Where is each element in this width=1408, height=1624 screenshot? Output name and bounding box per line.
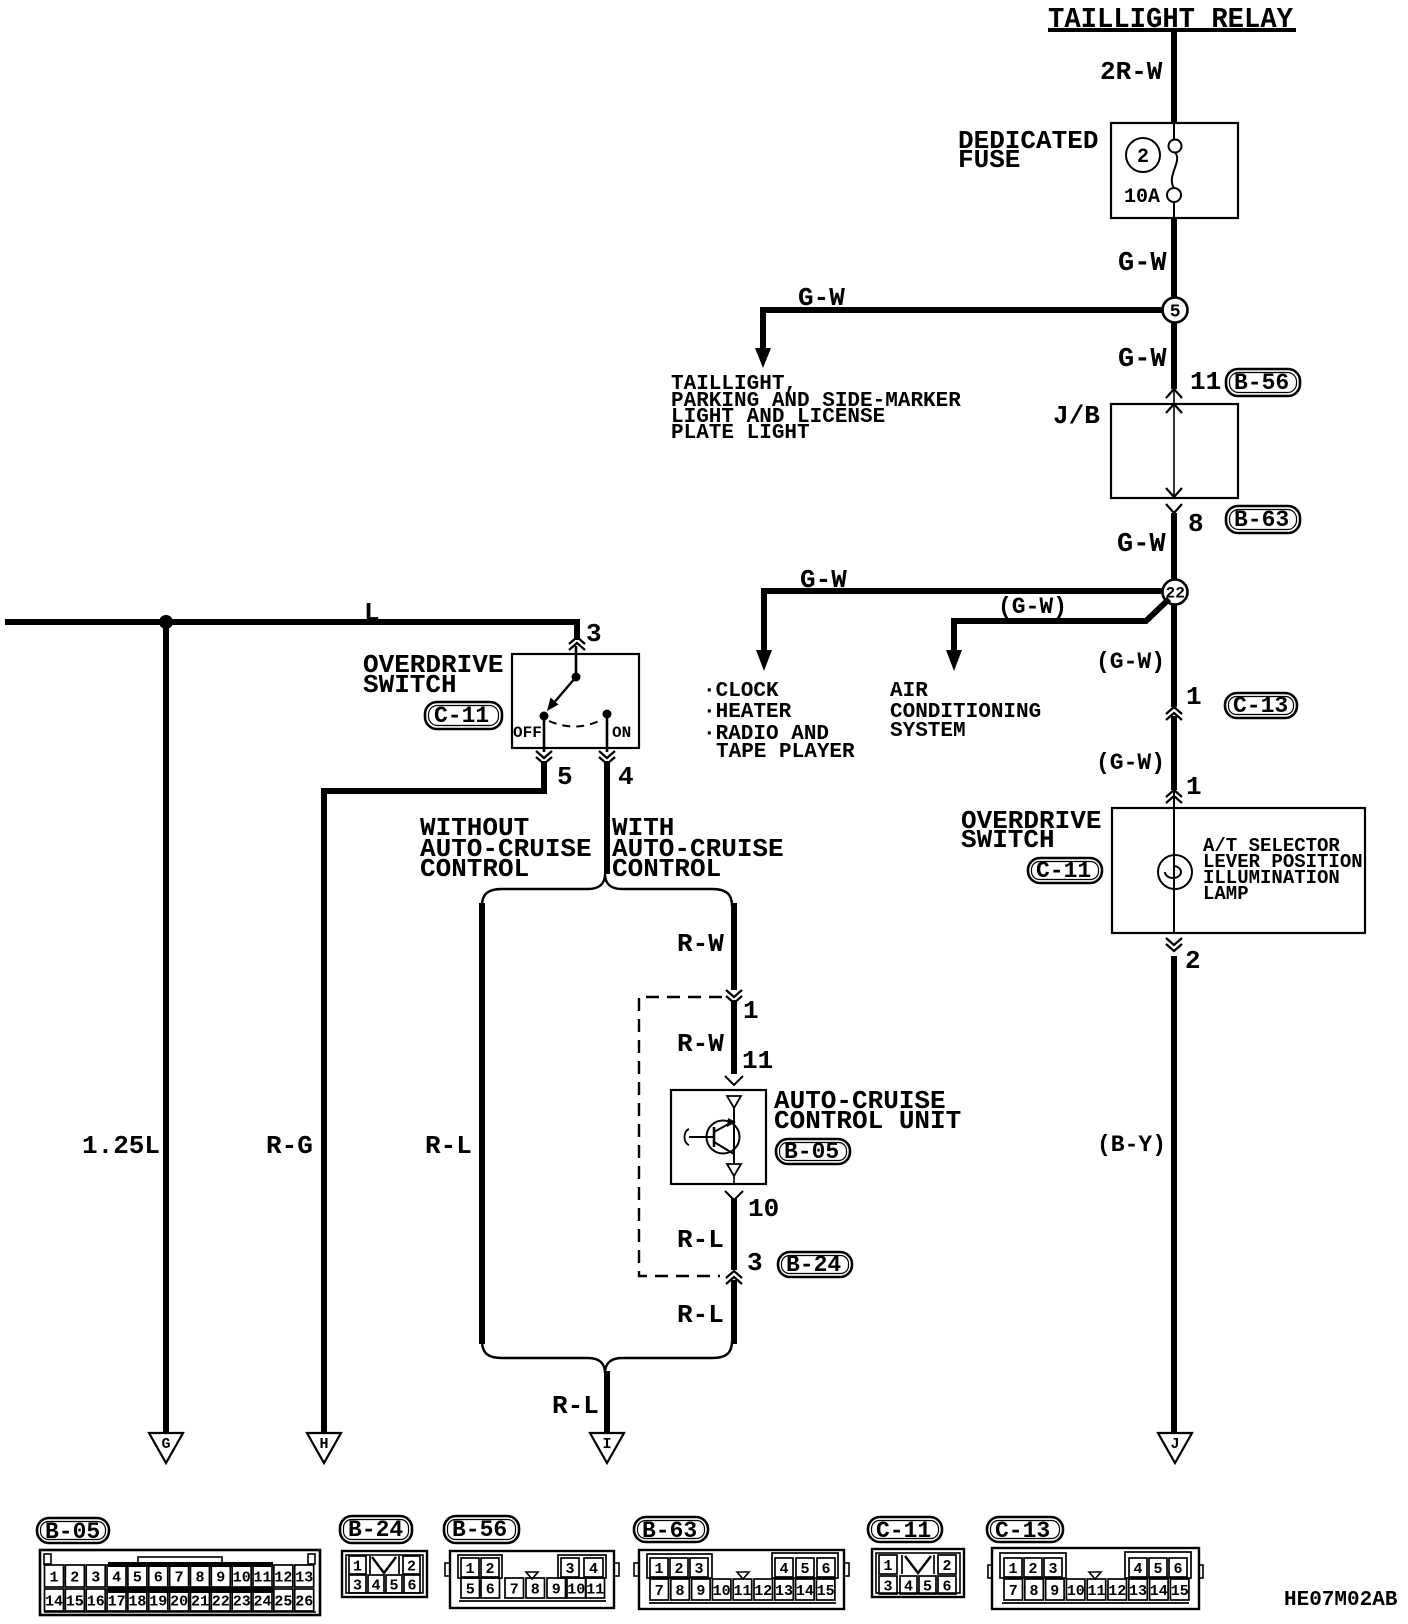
overdrive switch right box: [1112, 808, 1365, 933]
svg-text:8: 8: [196, 1569, 205, 1586]
svg-text:J/B: J/B: [1053, 401, 1100, 431]
switch OFF contact dot: [540, 712, 549, 721]
wire R-W to control unit: [731, 1000, 737, 1074]
svg-text:3: 3: [586, 619, 602, 649]
terminator H: [307, 1433, 341, 1463]
svg-text:OFF: OFF: [513, 724, 542, 742]
svg-text:15: 15: [66, 1593, 84, 1610]
svg-text:C-11: C-11: [434, 703, 489, 729]
svg-text:B-63: B-63: [1234, 507, 1289, 533]
svg-text:5: 5: [466, 1581, 475, 1598]
wire 1.25L down to G: [163, 622, 169, 1443]
svg-text:4: 4: [112, 1569, 121, 1586]
svg-text:1: 1: [1186, 682, 1202, 712]
svg-text:21: 21: [191, 1593, 209, 1610]
svg-text:12: 12: [1108, 1583, 1126, 1600]
wire ON pin 4 through box: [606, 718, 609, 752]
svg-text:AIR: AIR: [890, 680, 928, 703]
connector tag C-11 left: [425, 702, 502, 729]
pin 8 connector B-63 chevron: [1166, 504, 1182, 513]
connector tag B-05: [776, 1139, 850, 1165]
svg-text:11: 11: [742, 1046, 773, 1076]
svg-text:9: 9: [552, 1581, 561, 1598]
svg-text:14: 14: [45, 1593, 63, 1610]
switch pivot dot: [572, 673, 581, 682]
connector tag C-13: [987, 1517, 1063, 1544]
svg-text:4: 4: [1134, 1561, 1143, 1578]
wire R-G pin5 to H: [324, 761, 544, 1443]
svg-text:1.25L: 1.25L: [82, 1131, 160, 1161]
svg-text:R-G: R-G: [266, 1131, 313, 1161]
svg-text:17: 17: [108, 1593, 126, 1610]
svg-text:FUSE: FUSE: [958, 145, 1020, 175]
svg-text:12: 12: [754, 1583, 772, 1600]
arrow to air conditioning: [946, 650, 962, 671]
J/B junction block box: [1111, 404, 1238, 498]
svg-text:10: 10: [233, 1569, 251, 1586]
title TAILLIGHT RELAY: [1048, 3, 1296, 36]
terminator J: [1158, 1433, 1192, 1463]
chevron inside J/B bottom: [1166, 488, 1182, 497]
wire branch to taillight loads: [763, 307, 1163, 350]
svg-text:4: 4: [589, 1561, 598, 1578]
svg-text:5: 5: [801, 1561, 810, 1578]
label TAILLIGHT PARKING ...: [671, 373, 961, 445]
svg-text:18: 18: [128, 1593, 146, 1610]
svg-text:B-24: B-24: [786, 1252, 841, 1278]
wire R-L below B-24: [731, 1280, 737, 1344]
svg-text:10: 10: [1067, 1583, 1085, 1600]
svg-text:7: 7: [655, 1583, 664, 1600]
svg-text:1: 1: [1009, 1561, 1018, 1578]
svg-text:2: 2: [1185, 946, 1201, 976]
wire junction22 down: [1171, 604, 1177, 707]
wire G-W J/B to junction 22: [1171, 513, 1177, 580]
svg-text:R-W: R-W: [677, 929, 724, 959]
svg-text:R-L: R-L: [677, 1225, 724, 1255]
svg-text:12: 12: [274, 1569, 292, 1586]
terminator G: [149, 1433, 183, 1463]
svg-text:7: 7: [1009, 1583, 1018, 1600]
svg-text:8: 8: [676, 1583, 685, 1600]
svg-text:2: 2: [1029, 1561, 1038, 1578]
svg-text:6: 6: [408, 1577, 417, 1594]
svg-text:B-63: B-63: [642, 1518, 697, 1544]
svg-text:ON: ON: [612, 724, 631, 742]
svg-text:H: H: [320, 1436, 329, 1453]
wire thin through switch box: [1173, 790, 1175, 933]
svg-text:3: 3: [695, 1561, 704, 1578]
wire branch (G-W) to air conditioning: [954, 599, 1169, 652]
wire thin through J/B: [1173, 389, 1175, 497]
svg-text:13: 13: [1129, 1583, 1147, 1600]
svg-text:6: 6: [943, 1578, 952, 1595]
wire G-W fuse to junction 5: [1171, 218, 1177, 298]
svg-text:3: 3: [91, 1569, 100, 1586]
pin 11 connector B-56 chevron: [1166, 389, 1182, 398]
wire R-L without-cruise branch: [479, 903, 485, 1344]
svg-text:8: 8: [1030, 1583, 1039, 1600]
connector tag B-56: [1226, 369, 1300, 396]
svg-text:(B-Y): (B-Y): [1097, 1132, 1166, 1158]
switch ON contact dot: [603, 710, 612, 719]
node 22 junction: [1163, 580, 1188, 605]
svg-text:6: 6: [1174, 1561, 1183, 1578]
connector tag C-11: [868, 1517, 942, 1544]
svg-text:11: 11: [254, 1569, 272, 1586]
svg-text:G-W: G-W: [800, 565, 847, 595]
svg-text:1: 1: [50, 1569, 59, 1586]
wire R-L to I: [604, 1371, 610, 1443]
connector tag B-63: [1226, 506, 1300, 533]
svg-text:4: 4: [618, 762, 634, 792]
dedicated fuse box: [1111, 123, 1238, 218]
svg-text:4: 4: [904, 1578, 913, 1595]
switch dashed arc: [549, 719, 603, 727]
svg-text:26: 26: [295, 1593, 313, 1610]
chevron inside J/B top: [1166, 404, 1182, 413]
connector tag C-13: [1225, 693, 1297, 719]
svg-text:R-L: R-L: [552, 1391, 599, 1421]
svg-text:LAMP: LAMP: [1203, 883, 1249, 905]
svg-text:SWITCH: SWITCH: [363, 670, 457, 700]
svg-text:B-05: B-05: [784, 1139, 839, 1165]
svg-text:CONTROL UNIT: CONTROL UNIT: [774, 1106, 961, 1136]
connector tag C-11 right: [1028, 858, 1102, 884]
svg-text:19: 19: [149, 1593, 167, 1610]
svg-text:5: 5: [133, 1569, 142, 1586]
svg-text:3: 3: [747, 1248, 763, 1278]
svg-text:2: 2: [943, 1558, 952, 1575]
svg-text:1: 1: [743, 996, 759, 1026]
svg-text:11: 11: [586, 1581, 604, 1598]
svg-text:9: 9: [216, 1569, 225, 1586]
svg-text:11: 11: [1088, 1583, 1106, 1600]
wire (B-Y) down to J: [1171, 956, 1177, 1443]
wire G-W junction5 to J/B: [1171, 322, 1177, 389]
svg-text:5: 5: [923, 1578, 932, 1595]
svg-text:I: I: [603, 1436, 612, 1453]
svg-text:5: 5: [1154, 1561, 1163, 1578]
label AIR CONDITIONING SYSTEM: [890, 680, 1041, 743]
junction dot left main: [159, 615, 173, 629]
svg-text:2: 2: [486, 1561, 495, 1578]
wire R-L unit to B-24: [731, 1198, 737, 1270]
svg-text:3: 3: [1049, 1561, 1058, 1578]
svg-text:7: 7: [175, 1569, 184, 1586]
connector C-11 pinout: [872, 1549, 964, 1597]
svg-text:2: 2: [407, 1558, 416, 1575]
svg-text:1: 1: [655, 1561, 664, 1578]
svg-text:24: 24: [254, 1593, 272, 1610]
svg-text:4: 4: [372, 1577, 381, 1594]
svg-text:10: 10: [567, 1581, 585, 1598]
svg-text:13: 13: [775, 1583, 793, 1600]
svg-text:3: 3: [566, 1561, 575, 1578]
svg-text:B-56: B-56: [1234, 370, 1289, 396]
svg-text:R-W: R-W: [677, 1029, 724, 1059]
svg-text:SWITCH: SWITCH: [961, 825, 1055, 855]
svg-text:3: 3: [884, 1578, 893, 1595]
label DEDICATED FUSE: [958, 126, 1098, 175]
svg-text:(G-W): (G-W): [1096, 649, 1165, 675]
brace merge bottom: [482, 1341, 732, 1373]
svg-text:SYSTEM: SYSTEM: [890, 720, 966, 743]
terminator I: [590, 1433, 624, 1463]
svg-text:CONTROL: CONTROL: [612, 854, 721, 884]
label AUTO-CRUISE CONTROL UNIT: [774, 1086, 961, 1136]
connector tag B-24: [340, 1516, 412, 1543]
svg-text:4: 4: [780, 1561, 789, 1578]
arrow to taillight loads: [755, 348, 771, 368]
svg-text:14: 14: [1150, 1583, 1168, 1600]
svg-text:8: 8: [531, 1581, 540, 1598]
svg-text:B-24: B-24: [348, 1517, 403, 1543]
svg-text:·HEATER: ·HEATER: [703, 701, 792, 724]
svg-text:10: 10: [748, 1194, 779, 1224]
svg-text:C-11: C-11: [876, 1518, 931, 1544]
svg-text:(G-W): (G-W): [1096, 750, 1165, 776]
fuse element: [1167, 123, 1182, 218]
pin 1 double chevron down: [726, 990, 742, 1003]
svg-text:10A: 10A: [1124, 186, 1160, 209]
svg-text:11: 11: [1190, 367, 1221, 397]
pin 11 chevron into unit: [725, 1076, 743, 1085]
svg-text:5: 5: [1170, 303, 1181, 323]
pin 3 double chevron: [569, 637, 585, 650]
svg-text:5: 5: [557, 762, 573, 792]
svg-text:G-W: G-W: [1118, 249, 1167, 279]
svg-text:L: L: [364, 598, 380, 628]
switch common pin wire: [575, 646, 578, 676]
label OVERDRIVE SWITCH left: [363, 650, 503, 700]
connector C-13 pinout: [988, 1548, 1203, 1609]
transistor symbol U1: [685, 1096, 742, 1184]
svg-text:CONTROL: CONTROL: [420, 854, 529, 884]
svg-text:8: 8: [1188, 509, 1204, 539]
svg-text:·CLOCK: ·CLOCK: [703, 680, 779, 703]
pin 3 double chevron up: [726, 1271, 742, 1284]
svg-text:B-05: B-05: [45, 1519, 100, 1545]
svg-text:R-L: R-L: [677, 1300, 724, 1330]
pin 1 connector C-13 double chevron: [1166, 707, 1182, 720]
svg-text:R-L: R-L: [425, 1131, 472, 1161]
pin 5 double chevron down: [536, 751, 552, 764]
label CLOCK HEATER RADIO: [703, 680, 855, 764]
svg-text:HE07M02AB: HE07M02AB: [1284, 1589, 1398, 1612]
label A/T SELECTOR LEVER POSITION ILLUMINATION LAMP: [1203, 835, 1363, 905]
wire R-W with-cruise branch: [731, 903, 737, 990]
label OVERDRIVE SWITCH right: [961, 806, 1101, 855]
wire branch G-W to clock etc: [764, 588, 1163, 652]
svg-text:2: 2: [1137, 146, 1149, 169]
svg-text:7: 7: [510, 1581, 519, 1598]
svg-text:1: 1: [466, 1561, 475, 1578]
svg-text:G-W: G-W: [1117, 530, 1166, 560]
svg-text:22: 22: [212, 1593, 230, 1610]
svg-text:C-13: C-13: [995, 1518, 1050, 1544]
svg-text:9: 9: [1050, 1583, 1059, 1600]
pin 4 double chevron down: [599, 751, 615, 764]
svg-text:PLATE LIGHT: PLATE LIGHT: [671, 422, 810, 445]
svg-text:B-56: B-56: [452, 1517, 507, 1543]
dashed harness outline: [639, 997, 722, 1276]
svg-text:G-W: G-W: [1118, 345, 1167, 375]
svg-text:15: 15: [1171, 1583, 1189, 1600]
svg-text:2R-W: 2R-W: [1100, 57, 1163, 87]
svg-text:6: 6: [486, 1581, 495, 1598]
label WITHOUT AUTO-CRUISE CONTROL: [420, 813, 592, 884]
connector B-05 pinout: [40, 1550, 320, 1615]
svg-text:9: 9: [696, 1583, 705, 1600]
pin 2 double chevron down: [1166, 938, 1182, 951]
brace split top: [482, 874, 732, 906]
svg-text:J: J: [1171, 1436, 1180, 1453]
auto-cruise control unit box: [671, 1090, 766, 1184]
pin 10 chevron below unit: [725, 1191, 743, 1200]
svg-text:16: 16: [87, 1593, 105, 1610]
lamp A/T selector illumination: [1158, 855, 1192, 889]
pin 1 overdrive switch double chevron: [1166, 790, 1182, 803]
svg-text:TAPE PLAYER: TAPE PLAYER: [716, 741, 855, 764]
svg-text:23: 23: [233, 1593, 251, 1610]
svg-text:G: G: [162, 1436, 171, 1453]
svg-text:14: 14: [796, 1583, 814, 1600]
svg-text:1: 1: [1186, 772, 1202, 802]
svg-text:20: 20: [170, 1593, 188, 1610]
connector tag B-05: [37, 1518, 109, 1545]
svg-text:1: 1: [353, 1558, 362, 1575]
wire pin4 down to split: [604, 761, 610, 874]
svg-text:10: 10: [713, 1583, 731, 1600]
svg-text:C-11: C-11: [1036, 858, 1091, 884]
connector tag B-56: [444, 1516, 519, 1543]
svg-text:15: 15: [817, 1583, 835, 1600]
node 5 junction: [1163, 298, 1188, 323]
arrow to clock heater radio: [756, 650, 772, 671]
connector B-63 pinout: [634, 1550, 849, 1609]
connector B-56 pinout: [445, 1551, 619, 1608]
wire 2R-W from taillight relay to fuse: [1171, 32, 1177, 123]
svg-text:2: 2: [675, 1561, 684, 1578]
overdrive switch left box: [512, 654, 639, 748]
svg-text:(G-W): (G-W): [998, 594, 1067, 620]
svg-text:6: 6: [822, 1561, 831, 1578]
svg-text:13: 13: [295, 1569, 313, 1586]
svg-text:5: 5: [390, 1577, 399, 1594]
main wire L horizontal: [5, 622, 577, 640]
svg-text:11: 11: [734, 1583, 752, 1600]
svg-text:2: 2: [70, 1569, 79, 1586]
label WITH AUTO-CRUISE CONTROL: [612, 813, 784, 884]
svg-text:25: 25: [274, 1593, 292, 1610]
svg-text:C-13: C-13: [1233, 693, 1288, 719]
svg-text:3: 3: [353, 1577, 362, 1594]
svg-text:1: 1: [884, 1558, 893, 1575]
svg-text:G-W: G-W: [798, 283, 845, 313]
wire OFF pin 5 through box: [543, 720, 546, 752]
connector B-24 pinout: [342, 1551, 427, 1597]
svg-text:6: 6: [154, 1569, 163, 1586]
wire (G-W) to overdrive switch right: [1171, 716, 1177, 790]
connector tag B-63: [634, 1517, 708, 1544]
switch blade: [547, 677, 576, 711]
connector tag B-24: [778, 1252, 852, 1278]
